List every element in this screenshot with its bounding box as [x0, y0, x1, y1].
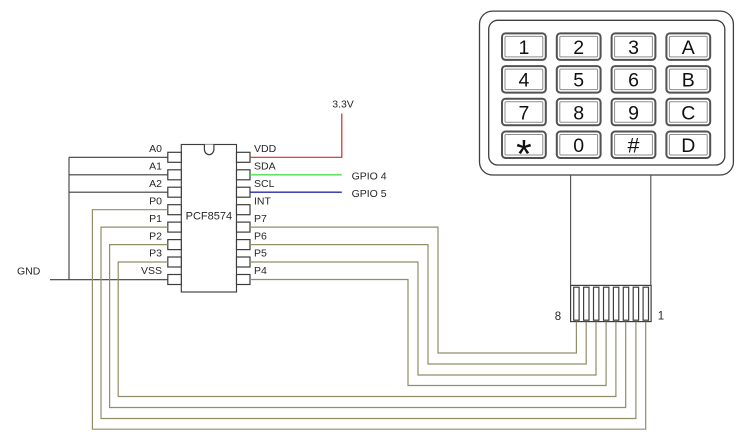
keypad key 9 — [612, 99, 656, 126]
svg-text:8: 8 — [573, 102, 584, 124]
svg-text:#: # — [628, 134, 640, 158]
IC pin A2 (left 3) — [149, 178, 181, 197]
IC pin A1 (left 2) — [149, 161, 181, 180]
svg-text:VSS: VSS — [141, 265, 162, 277]
wire P2 to connector pin 3 — [110, 245, 626, 408]
keypad key 1 — [502, 33, 546, 60]
wire P1 to connector pin 2 — [101, 227, 636, 418]
svg-text:P6: P6 — [254, 230, 267, 242]
svg-text:8: 8 — [555, 311, 561, 323]
svg-text:SCL: SCL — [254, 178, 275, 190]
IC U1 PCF8574 body — [181, 145, 236, 293]
wire GND to VSS — [50, 279, 168, 281]
svg-text:5: 5 — [573, 70, 584, 92]
svg-text:3: 3 — [628, 37, 639, 59]
IC pin A0 (left 1) — [149, 143, 181, 162]
IC pin P1 (left 5) — [149, 213, 181, 232]
wire A0 to address bus — [69, 156, 168, 158]
svg-text:D: D — [681, 135, 695, 157]
svg-text:GND: GND — [17, 266, 41, 278]
IC pin INT (right 13) — [237, 195, 272, 214]
keypad key 6 — [612, 66, 656, 93]
keypad key 0 — [557, 132, 601, 159]
keypad ribbon tail left edge — [570, 175, 572, 285]
keypad key # — [612, 132, 656, 159]
IC pin P6 (right 11) — [237, 230, 268, 249]
keypad key 4 — [502, 66, 546, 93]
wire P3 to connector pin 4 — [118, 262, 616, 397]
IC pin SDA (right 15) — [237, 161, 276, 180]
wire A2 to address bus — [69, 191, 168, 193]
svg-text:P4: P4 — [254, 265, 267, 277]
keypad key D — [666, 132, 710, 159]
svg-text:4: 4 — [518, 70, 529, 92]
keypad key 3 — [612, 33, 656, 60]
keypad key 5 — [557, 66, 601, 93]
IC pin P3 (left 7) — [149, 248, 181, 267]
svg-text:9: 9 — [628, 102, 639, 124]
wire A1 to address bus — [69, 174, 168, 176]
svg-text:7: 7 — [518, 102, 529, 124]
svg-text:A0: A0 — [149, 143, 162, 155]
svg-text:P5: P5 — [254, 248, 267, 260]
keypad key 2 — [557, 33, 601, 60]
keypad ribbon tail right edge — [650, 175, 652, 285]
wire P7 to connector pin 8 — [250, 227, 576, 353]
svg-text:*: * — [516, 132, 532, 176]
svg-text:A1: A1 — [149, 161, 162, 173]
keypad KP1 outer case — [480, 11, 734, 175]
connector J1 pins 8..1 — [574, 287, 649, 320]
wire SCL to GPIO 5 (blue) — [250, 191, 342, 193]
connector J1 body — [571, 285, 652, 321]
svg-text:6: 6 — [628, 70, 639, 92]
wire P6 to connector pin 7 — [250, 245, 586, 364]
wire P4 to connector pin 5 — [250, 280, 606, 386]
wire SDA to GPIO 4 (green) — [250, 174, 342, 176]
keypad key 8 — [557, 99, 601, 126]
keypad KP1 inner bezel — [489, 20, 725, 165]
svg-text:A: A — [682, 37, 695, 59]
IC pin P7 (right 12) — [237, 213, 268, 232]
IC pin SCL (right 14) — [237, 178, 275, 197]
svg-text:1: 1 — [658, 311, 664, 323]
svg-text:INT: INT — [254, 195, 272, 207]
IC pin P5 (right 10) — [237, 248, 268, 267]
svg-text:GPIO 4: GPIO 4 — [352, 171, 387, 183]
keypad key C — [666, 99, 710, 126]
svg-text:3.3V: 3.3V — [332, 99, 354, 111]
svg-text:P7: P7 — [254, 213, 267, 225]
wire VDD to 3.3V (red) — [250, 114, 342, 158]
wire P0 to connector pin 1 — [92, 210, 645, 430]
keypad key 7 — [502, 99, 546, 126]
svg-text:P2: P2 — [149, 230, 162, 242]
svg-text:2: 2 — [573, 37, 584, 59]
IC U1 pin-1 notch — [204, 145, 214, 155]
svg-text:GPIO 5: GPIO 5 — [352, 188, 387, 200]
svg-text:P3: P3 — [149, 248, 162, 260]
keypad key A — [666, 33, 710, 60]
svg-text:P0: P0 — [149, 195, 162, 207]
IC pin P0 (left 4) — [149, 195, 181, 214]
svg-text:VDD: VDD — [254, 143, 277, 155]
svg-text:B: B — [682, 70, 695, 92]
wire P5 to connector pin 6 — [250, 262, 596, 375]
wire address bus vertical to ground — [68, 157, 70, 279]
svg-text:A2: A2 — [149, 178, 162, 190]
IC pin VSS (left 8) — [141, 265, 181, 284]
IC pin VDD (right 16) — [237, 143, 277, 162]
keypad key B — [666, 66, 710, 93]
IC pin P4 (right 9) — [237, 265, 268, 284]
svg-text:SDA: SDA — [254, 161, 276, 173]
svg-text:C: C — [681, 102, 695, 124]
svg-text:PCF8574: PCF8574 — [186, 211, 232, 223]
keypad key * — [502, 132, 546, 177]
svg-text:1: 1 — [518, 37, 529, 59]
svg-text:0: 0 — [573, 135, 584, 157]
svg-text:P1: P1 — [149, 213, 162, 225]
IC pin P2 (left 6) — [149, 230, 181, 249]
